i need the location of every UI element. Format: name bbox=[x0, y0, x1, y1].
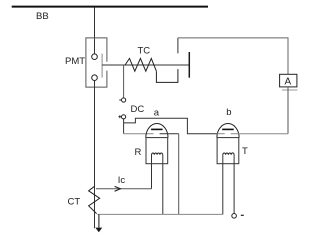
Ic arrowhead bbox=[115, 186, 121, 191]
coil R right lead bbox=[162, 155, 164, 215]
ground arrow bbox=[95, 228, 102, 233]
svg-text:PMT: PMT bbox=[65, 56, 85, 67]
ground lead bbox=[98, 214, 100, 227]
PMT envelope box bbox=[86, 38, 107, 87]
wire tube a right down bbox=[178, 134, 180, 215]
wire DC minus terminal bbox=[123, 65, 125, 98]
svg-text:CT: CT bbox=[68, 197, 81, 208]
svg-text:DC: DC bbox=[131, 104, 145, 115]
wire PMT anode output bbox=[102, 64, 189, 66]
tube b right stub wire to ammeter bbox=[231, 133, 288, 135]
coil R left lead bbox=[151, 155, 153, 189]
coil R bbox=[152, 153, 163, 155]
tube b electrode bar bbox=[222, 128, 234, 130]
wire PMT to CT bbox=[94, 81, 96, 229]
svg-text:b: b bbox=[226, 107, 231, 118]
wire Ic bbox=[96, 188, 152, 190]
negative output terminal circle bbox=[232, 214, 237, 219]
busbar BB bbox=[12, 6, 208, 8]
resistor TC bbox=[125, 58, 156, 71]
gap tube cathode bracket bbox=[156, 69, 178, 82]
bottom return wire bbox=[97, 213, 223, 215]
tube a electrode bar bbox=[151, 128, 163, 130]
coil T right lead bbox=[233, 155, 235, 214]
gap tube grid bar bbox=[188, 52, 190, 78]
wire DC plus down bbox=[123, 119, 125, 134]
tube a body bbox=[146, 138, 168, 164]
minus sign bbox=[119, 99, 121, 101]
plus sign bbox=[118, 115, 121, 118]
svg-text:a: a bbox=[154, 108, 160, 119]
gap tube anode bbox=[177, 38, 179, 54]
wire ammeter down bbox=[287, 87, 289, 134]
wire DC plus to tube a bbox=[124, 133, 154, 135]
PMT dynode circle top bbox=[92, 54, 98, 60]
DC minus terminal circle bbox=[122, 98, 126, 102]
wire anode to ammeter bbox=[178, 38, 288, 74]
svg-text:A: A bbox=[285, 77, 292, 88]
DC plus terminal circle bbox=[122, 115, 126, 119]
svg-text:T: T bbox=[242, 146, 248, 157]
svg-text:Ic: Ic bbox=[118, 175, 126, 186]
svg-text:TC: TC bbox=[138, 46, 151, 57]
PMT dynode circle bottom bbox=[92, 75, 98, 81]
coil T left lead bbox=[222, 155, 224, 215]
tube b body bbox=[217, 138, 239, 164]
ammeter A box shadow bbox=[282, 89, 298, 91]
minus sign output bbox=[241, 214, 244, 216]
tube b dome bbox=[217, 123, 239, 137]
svg-text:BB: BB bbox=[36, 11, 49, 22]
svg-text:R: R bbox=[135, 147, 142, 158]
resistor CT bbox=[89, 186, 100, 213]
tube b left stub wire bbox=[217, 133, 225, 135]
ammeter A box bbox=[280, 74, 297, 87]
coil T bbox=[223, 153, 234, 155]
tube a right stub wire bbox=[160, 133, 179, 135]
wire busbar to PMT bbox=[94, 8, 96, 55]
wire DC plus step to top rail bbox=[124, 118, 217, 134]
tube a dome bbox=[146, 124, 168, 138]
PMT anode plate bbox=[101, 54, 103, 78]
